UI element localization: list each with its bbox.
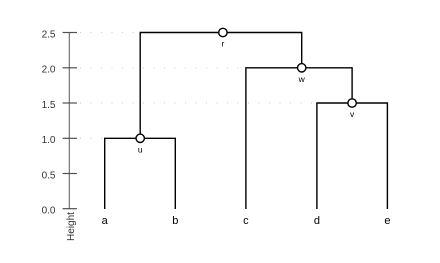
svg-text:c: c [243,215,249,227]
svg-text:a: a [102,215,109,227]
svg-text:v: v [350,109,355,119]
svg-text:2.0: 2.0 [42,65,56,76]
svg-text:r: r [221,39,224,49]
svg-text:u: u [138,144,143,154]
svg-text:e: e [384,215,390,227]
svg-text:1.0: 1.0 [42,135,56,146]
svg-text:d: d [314,215,320,227]
svg-text:0.5: 0.5 [42,170,56,181]
svg-text:2.5: 2.5 [42,29,56,40]
svg-text:1.5: 1.5 [42,100,56,111]
svg-text:b: b [172,215,178,227]
svg-text:0.0: 0.0 [42,206,56,217]
svg-text:w: w [298,74,306,84]
svg-text:Height: Height [66,212,77,241]
